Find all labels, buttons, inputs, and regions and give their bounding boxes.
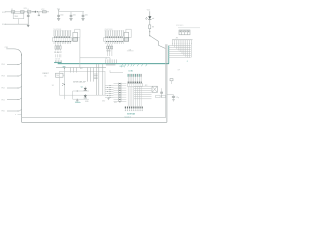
- wire xtal left: [72, 91, 74, 99]
- svg-text:10k: 10k: [44, 76, 47, 78]
- svg-text:board v1: board v1: [125, 116, 131, 118]
- svg-text:R5 R6 R7: R5 R6 R7: [54, 52, 61, 54]
- svg-text:L1: L1: [27, 9, 29, 11]
- pin stubs: [56, 54, 61, 57]
- diode D1: [21, 11, 25, 13]
- svg-text:JP1: JP1: [176, 38, 179, 40]
- IC4 pin hatch: [94, 74, 98, 79]
- svg-text:1 2 3 4: 1 2 3 4: [55, 58, 60, 60]
- bus vertical left: [21, 54, 23, 122]
- svg-text:100n: 100n: [60, 15, 64, 17]
- ground near SV1: [108, 96, 110, 99]
- regulator ground pin: [18, 19, 20, 25]
- svg-text:22p: 22p: [176, 97, 179, 99]
- IC4 top pin wires: [87, 64, 102, 95]
- ground: [76, 98, 78, 101]
- svg-text:S1: S1: [52, 85, 54, 87]
- diode D5: [84, 95, 87, 98]
- wire from IC1 pin down: [79, 38, 81, 68]
- bus vertical right 2: [166, 44, 168, 122]
- connector JP1 pins: [172, 40, 193, 43]
- faint wire off right: [178, 27, 200, 29]
- wire across: [80, 57, 110, 59]
- svg-text:F1: F1: [11, 9, 13, 11]
- svg-text:PD5: PD5: [5, 47, 8, 49]
- svg-text:PD2: PD2: [2, 88, 5, 90]
- teal junction: [63, 66, 66, 68]
- wire: [63, 68, 65, 100]
- IC 74HC595N body: [52, 38, 72, 41]
- regulator IC3: [13, 14, 24, 19]
- teal net stub: [54, 62, 62, 64]
- svg-text:D[0..7]: D[0..7]: [120, 66, 125, 68]
- CON1 body: [128, 84, 143, 87]
- svg-text:PD1: PD1: [2, 99, 5, 101]
- pin stubs to bus: [55, 60, 61, 62]
- IC 74HC595N vcc loop wire: [75, 29, 80, 37]
- bus vertical right 1: [165, 44, 167, 118]
- wire xtal upper: [73, 90, 89, 92]
- capacitor C4: [58, 12, 60, 15]
- wire VCC rail: [59, 11, 84, 13]
- switch S1: [64, 84, 65, 85]
- ladder wires: [134, 86, 152, 99]
- box JP3: [156, 95, 160, 98]
- IC 74HC595N top pins: [54, 31, 72, 37]
- IC 74HC595N pin name row: [54, 37, 70, 38]
- IC4 body: [60, 71, 106, 95]
- bus net horizontal: [58, 63, 169, 65]
- capacitor C11: [173, 95, 175, 96]
- svg-text:RST: RST: [80, 68, 83, 70]
- IC 74HC595N vcc loop wire: [126, 29, 131, 37]
- IC 74HC595N bottom pins: [105, 42, 123, 44]
- IC 74HC595N pin name row: [105, 37, 122, 38]
- svg-text:Q1: Q1: [81, 87, 83, 89]
- svg-text:X1-1: X1-1: [2, 12, 5, 14]
- svg-text:ATMEGA8-16P: ATMEGA8-16P: [73, 81, 86, 84]
- ground: [69, 18, 72, 20]
- capacitor C3: [38, 12, 40, 15]
- svg-text:red: red: [152, 18, 154, 20]
- svg-text:ATMEGA8: ATMEGA8: [127, 113, 135, 116]
- svg-text:16MHz: 16MHz: [75, 102, 81, 104]
- resistor network below IC1: [55, 44, 61, 51]
- wire: [149, 11, 151, 16]
- svg-text:CON1: CON1: [128, 71, 133, 73]
- wires below IC2: [107, 44, 113, 56]
- pin stubs to bus: [106, 59, 117, 65]
- svg-text:7805: 7805: [14, 16, 18, 18]
- CON1 top pins: [128, 77, 141, 81]
- wire xtal lower: [73, 98, 89, 100]
- ground: [27, 23, 29, 26]
- IC 74HC595N bottom pads: [55, 41, 71, 42]
- capacitor C10: [161, 88, 163, 92]
- IC4 top pin stubs: [70, 68, 72, 73]
- crystal box Q2: [152, 86, 157, 92]
- junction: [64, 68, 65, 69]
- bus ripper marks: [133, 64, 147, 66]
- junction: [76, 90, 79, 93]
- staircase wires: [169, 43, 192, 57]
- wire GND rail: [5, 23, 28, 25]
- junction: [76, 98, 79, 101]
- teal ripper marks: [122, 64, 133, 67]
- ground: [172, 99, 175, 101]
- svg-text:PD3: PD3: [2, 76, 5, 78]
- CON1 lower pins: [128, 87, 141, 107]
- VCC power flag: [58, 9, 60, 11]
- IC 74HC595N body: [104, 38, 124, 41]
- svg-text:SV1: SV1: [114, 102, 117, 104]
- svg-text:SCK MISO: SCK MISO: [176, 25, 184, 27]
- wire to bus: [149, 29, 151, 36]
- inductor L1: [27, 11, 31, 13]
- fuse F1: [11, 11, 15, 13]
- IC 74HC595N name square: [124, 38, 129, 41]
- wire VCC to IC4: [56, 67, 106, 69]
- svg-text:PD0: PD0: [2, 111, 5, 113]
- CON1 pad row: [128, 82, 142, 84]
- capacitor C6: [82, 12, 84, 15]
- diode D2: [33, 11, 34, 12]
- IC 74HC595N side box: [124, 32, 129, 37]
- svg-text:JP2: JP2: [145, 85, 148, 87]
- IC 74HC595N top pins: [105, 31, 124, 37]
- svg-text:100n: 100n: [85, 15, 89, 17]
- capacitor C1: [27, 12, 29, 15]
- bus teal vertical: [168, 46, 170, 64]
- svg-text:J1: J1: [187, 61, 189, 63]
- IC4 right pin wires: [105, 85, 114, 98]
- svg-text:ISP: ISP: [178, 70, 180, 72]
- wire: [167, 94, 174, 96]
- box JP4: [161, 95, 165, 98]
- IC 74HC595N name square: [73, 38, 78, 41]
- svg-text:PD4: PD4: [2, 64, 5, 66]
- LED LED1: [148, 16, 151, 19]
- bus bottom line 1: [22, 117, 166, 119]
- svg-text:VCC: VCC: [57, 8, 60, 10]
- resistor R9: [56, 73, 64, 77]
- svg-text:100n: 100n: [73, 15, 77, 17]
- svg-text:GND: GND: [102, 101, 105, 103]
- IC 74HC595N bottom pads: [106, 41, 123, 42]
- svg-text:R8: R8: [152, 27, 154, 29]
- wire: [149, 20, 151, 25]
- ground: [57, 18, 60, 20]
- wire down to bus: [109, 58, 111, 64]
- svg-text:R2R3: R2R3: [106, 51, 110, 53]
- svg-text:RESET: RESET: [43, 73, 50, 75]
- svg-text:IC3: IC3: [24, 8, 27, 10]
- IC 74HC595N side box: [73, 32, 78, 37]
- svg-text:10k: 10k: [56, 75, 59, 77]
- pin header SV1: [114, 83, 127, 103]
- ground: [81, 18, 84, 20]
- component R10: [170, 79, 173, 81]
- CON1 pin cap row: [128, 74, 142, 77]
- node VIN wire: [5, 11, 49, 13]
- diode D3: [42, 11, 46, 13]
- DIP switch S3: [179, 30, 190, 35]
- diode D4: [84, 88, 87, 91]
- wire L: [110, 70, 123, 72]
- IC 74HC595N bottom pins: [54, 42, 71, 44]
- bus bottom line 2: [22, 121, 167, 123]
- CON1 bottom pad row: [125, 107, 143, 111]
- capacitor C5: [70, 12, 72, 15]
